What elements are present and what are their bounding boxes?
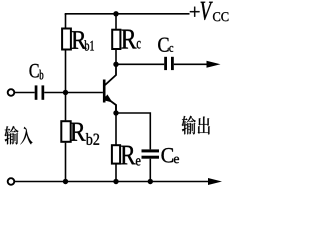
capacitor Cb plates — [35, 85, 38, 99]
junction node Cb / bias divider — [63, 90, 68, 95]
transistor Q base bar — [103, 80, 106, 103]
wire emitter node to Re — [115, 113, 117, 145]
resistor Rc — [112, 30, 120, 49]
wire bias divider middle (Rb1 to Rb2, via Cb node) — [65, 50, 67, 120]
label Ce — [162, 148, 174, 163]
label Rb2 — [71, 123, 86, 141]
label shuchu (output) — [182, 116, 196, 135]
capacitor Cc plates — [164, 57, 167, 70]
wire top rail (Vcc) — [66, 14, 190, 15]
resistor Re — [112, 145, 120, 163]
junction node Rb2 bottom — [63, 179, 68, 184]
terminal input bottom — [8, 178, 15, 185]
wire Re to bottom rail — [115, 163, 117, 181]
junction node emitter — [113, 110, 118, 115]
transistor Q emitter arrowhead — [103, 94, 112, 102]
label +Vcc — [190, 7, 200, 17]
wire output lead (Cc to arrow) — [174, 63, 208, 65]
transistor Q collector lead — [105, 64, 117, 85]
capacitor Ce plates — [142, 149, 160, 152]
junction node Re bottom — [113, 179, 118, 184]
junction node Ce bottom — [148, 179, 153, 184]
wire emitter vertical (emitter to node) — [115, 105, 117, 114]
label Rc — [121, 30, 136, 49]
label Rb1 — [72, 31, 87, 49]
label Re — [121, 146, 136, 165]
wire bias divider upper (top rail to Rb1) — [65, 14, 67, 28]
output arrowhead — [207, 61, 221, 68]
label shuru (input) — [4, 126, 18, 145]
wire emitter node to Ce branch — [116, 113, 150, 149]
resistor Rb1 — [62, 29, 71, 50]
wire input lead (terminal to Cb) — [14, 92, 35, 94]
label Cb — [30, 64, 39, 78]
junction node top rail / Rc — [113, 11, 118, 16]
wire bias divider lower (Rb2 to bottom rail) — [65, 143, 67, 182]
wire collector output (node to Cc) — [116, 63, 164, 65]
wire Rc lower (Rc to collector node) — [115, 50, 117, 65]
terminal input top — [8, 89, 15, 96]
wire Ce to bottom rail — [149, 159, 151, 182]
junction node collector — [113, 62, 118, 67]
wire bottom rail — [14, 181, 210, 183]
bottom rail arrowhead — [208, 178, 222, 185]
wire base lead (Cb to base bar) — [44, 92, 103, 94]
wire Rc upper (top rail dot to Rc) — [115, 14, 117, 29]
resistor Rb2 — [61, 121, 70, 142]
transistor Q emitter lead — [105, 97, 117, 114]
label Cc — [158, 38, 168, 52]
